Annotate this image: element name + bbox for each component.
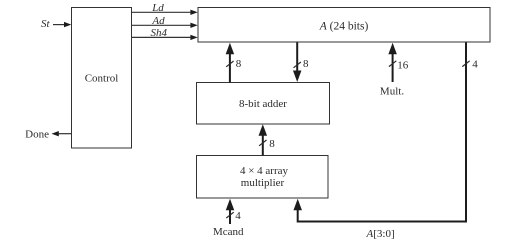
svg-text:Done: Done [25,129,49,141]
svg-text:8-bit adder: 8-bit adder [239,98,287,110]
svg-text:Sh4: Sh4 [151,27,168,39]
svg-text:8: 8 [303,58,309,70]
bus A[3:0] feedback from A to multiplier, 4 bits [293,43,469,222]
wire Ad from Control to A [132,23,198,28]
svg-text:Mult.: Mult. [380,85,404,97]
svg-text:4: 4 [235,210,241,222]
wire Done arrow out of Control [52,131,72,136]
register A (24 bits) box [198,8,490,43]
svg-text:8: 8 [236,58,242,70]
svg-text:Mcand: Mcand [213,226,244,238]
svg-text:4: 4 [472,58,478,70]
bus A to adder, 8 bits, arrow down [293,43,302,83]
svg-text:multiplier: multiplier [241,177,285,189]
bus adder output to A, 8 bits, arrow up [226,43,235,83]
svg-text:16: 16 [397,60,409,72]
bus multiplier output to adder, 8 bits, arrow up [259,124,268,155]
svg-text:8: 8 [269,138,275,150]
svg-text:Ld: Ld [151,2,164,14]
bus Mcand input to multiplier, 4 bits, arrow up [226,199,235,224]
wire Sh4 from Control to A [132,35,198,40]
svg-text:A[3:0]: A[3:0] [366,228,395,240]
wire St arrow into Control [53,22,71,27]
svg-text:Ad: Ad [151,15,165,27]
8-bit adder box [197,83,330,125]
svg-text:Control: Control [85,73,119,85]
svg-text:A (24 bits): A (24 bits) [319,21,369,33]
control box [72,8,132,149]
wire Ld from Control to A [132,10,198,15]
bus Mult input to A, 16 bits, arrow up [388,43,397,82]
svg-text:4 × 4 array: 4 × 4 array [240,165,289,177]
svg-text:St: St [41,18,51,30]
4x4 array multiplier box [197,156,329,199]
